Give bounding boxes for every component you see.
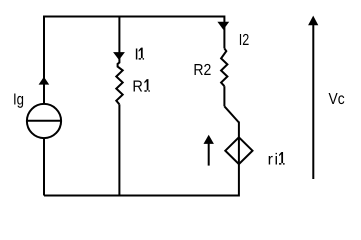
resistor R1 [116, 63, 122, 105]
svg-text:Ig: Ig [13, 92, 24, 109]
resistor R2 [221, 48, 227, 86]
wire right branch middle [223, 86, 225, 106]
wire left branch upper [43, 16, 45, 105]
svg-text:I: I [134, 47, 138, 64]
wire middle branch upper [118, 16, 120, 64]
controlled source ri1 inner line [238, 137, 240, 164]
svg-text:R2: R2 [193, 62, 211, 79]
wire top horizontal [44, 16, 224, 18]
current arrow of source Ig [39, 77, 50, 85]
current source Ig chord [26, 120, 62, 122]
voltage arrow Vc shaft [312, 25, 314, 180]
svg-text:ri: ri [268, 152, 278, 169]
svg-text:Vc: Vc [329, 91, 345, 108]
controlled source ri1 diamond [225, 137, 252, 164]
wire diagonal jog [224, 106, 239, 122]
wire left branch lower [43, 139, 45, 196]
current arrow I1 [113, 52, 125, 60]
control arrow of ri1 [208, 142, 210, 166]
voltage arrowhead Vc [308, 16, 318, 26]
svg-text:I2: I2 [239, 32, 250, 49]
svg-text:R: R [132, 79, 143, 96]
current arrow I2 [217, 22, 229, 30]
wire right branch top [223, 16, 225, 49]
wire below diamond [238, 164, 240, 197]
wire bottom horizontal [44, 195, 239, 197]
current source Ig circle [27, 104, 61, 138]
control arrowhead of ri1 [204, 135, 214, 144]
wire above diamond [238, 122, 240, 138]
wire middle branch lower [118, 104, 120, 195]
